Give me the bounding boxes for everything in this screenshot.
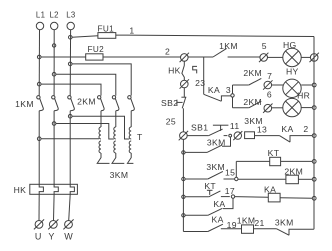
svg-text:2KM: 2KM <box>243 68 262 78</box>
svg-text:1KM: 1KM <box>237 216 256 226</box>
transformer T coil C <box>129 127 131 139</box>
svg-text:13: 13 <box>257 124 267 134</box>
contactor 3KM main contacts <box>97 153 109 163</box>
wire node3 down to row3 <box>232 97 234 108</box>
node rail junction row7 <box>312 196 316 200</box>
svg-text:2KM: 2KM <box>77 97 96 107</box>
svg-text:FU2: FU2 <box>88 45 105 54</box>
node U terminal <box>35 221 43 229</box>
wire vertical branch x204 <box>203 57 205 94</box>
node junction L1-2KM branch <box>37 82 41 86</box>
svg-text:3KM: 3KM <box>206 162 225 172</box>
wire left rail <box>182 139 184 231</box>
node junction L1 tap <box>37 137 41 141</box>
svg-text:KT: KT <box>204 181 216 191</box>
wire 2KM pole C lower <box>130 111 132 127</box>
svg-text:U: U <box>35 231 42 241</box>
wire junction at 1KM contact top <box>188 56 213 58</box>
thermal relay HK heater 3 <box>70 184 74 194</box>
svg-text:HY: HY <box>286 66 299 76</box>
wire branch L2 to 2KM pole B <box>56 74 116 95</box>
wire branch L3 to 2KM pole C <box>72 64 131 96</box>
svg-text:19: 19 <box>227 220 237 230</box>
node rail junction KT row <box>312 160 316 164</box>
node junction selfhold <box>182 151 185 154</box>
node junction row7 <box>182 195 185 198</box>
wire L1 vertical <box>38 30 40 96</box>
node junction L2 tap <box>52 122 56 126</box>
node junction L3-2KM branch <box>68 62 72 66</box>
wire SB2 to SB1 terminal <box>182 108 184 132</box>
wire tap coil A <box>41 138 99 140</box>
contactor 1KM pole 2 <box>52 96 55 99</box>
node rail junction row4 <box>312 134 316 138</box>
svg-text:3KM: 3KM <box>275 218 294 228</box>
node terminal wire2/HK <box>181 54 189 62</box>
node junction L2-2KM branch <box>52 72 56 76</box>
svg-text:HK: HK <box>14 185 27 195</box>
wire tap coil C <box>72 116 129 139</box>
svg-text:T: T <box>137 132 143 142</box>
contactor 1KM pole 3 <box>68 96 71 99</box>
svg-text:HR: HR <box>297 90 310 100</box>
svg-text:L2: L2 <box>50 11 59 20</box>
wire to FU2 <box>41 56 86 58</box>
wire 2KM coil to rail <box>298 178 312 180</box>
node W terminal <box>65 221 73 229</box>
transformer T coil B <box>114 127 116 139</box>
contactor 1KM pole 1 <box>37 96 40 99</box>
svg-text:Y: Y <box>48 231 54 241</box>
svg-text:15: 15 <box>225 168 235 178</box>
wire to motor terminals <box>38 194 40 220</box>
svg-text:KA: KA <box>208 85 220 95</box>
svg-text:KA: KA <box>213 199 225 209</box>
node 3 junction <box>231 94 234 97</box>
svg-text:SB2: SB2 <box>161 98 178 108</box>
wire HR to rail <box>301 107 312 109</box>
svg-text:2: 2 <box>303 124 308 134</box>
thermal relay HK heater 1 <box>39 184 43 194</box>
svg-text:SB1: SB1 <box>191 123 208 133</box>
node terminal 25/SB1 <box>180 132 188 140</box>
svg-text:1KM: 1KM <box>15 99 34 109</box>
wire to HR lamp <box>271 107 283 109</box>
svg-text:2: 2 <box>165 47 170 57</box>
wire L3 vertical <box>69 30 71 96</box>
svg-text:HK: HK <box>168 66 181 76</box>
svg-text:W: W <box>64 231 73 241</box>
wire to HY lamp <box>271 84 283 86</box>
node junction L3-FU1 <box>69 36 73 40</box>
contactor 2KM pole C <box>128 96 131 99</box>
svg-text:3KM: 3KM <box>110 170 129 180</box>
wire 2KM pole A lower <box>100 111 102 127</box>
wire L2 lower <box>53 111 55 185</box>
node Y terminal <box>49 221 57 229</box>
node junction row6 <box>182 177 185 180</box>
svg-text:1: 1 <box>129 25 134 35</box>
transformer T coil A <box>99 127 101 139</box>
wire right rail <box>313 37 315 230</box>
wire to HG lamp <box>267 56 283 58</box>
wire KT branch vertical <box>235 161 237 177</box>
svg-text:3: 3 <box>226 85 231 95</box>
wire KT coil to rail <box>281 160 313 162</box>
svg-text:11: 11 <box>230 121 240 131</box>
wire to FU1 <box>72 36 98 38</box>
svg-text:21: 21 <box>254 218 264 228</box>
svg-text:6: 6 <box>267 90 272 100</box>
thermal relay HK box <box>30 184 78 194</box>
contactor 2KM pole B <box>112 96 115 99</box>
wire tap coil B <box>56 124 114 140</box>
svg-text:25: 25 <box>166 117 176 127</box>
node rail junction row6 <box>312 177 316 181</box>
wire L2 vertical <box>53 30 55 96</box>
wire KA coil to rail <box>280 197 312 200</box>
node rail junction row3 <box>312 106 316 110</box>
wire L1 lower <box>38 111 40 185</box>
svg-text:L3: L3 <box>66 11 75 20</box>
svg-text:7: 7 <box>267 71 272 81</box>
wire node17 to KA coil <box>235 196 269 199</box>
node junction L2 small <box>52 44 55 47</box>
wire HG to rail <box>301 56 311 58</box>
wire branch L1 to 2KM pole A <box>41 84 101 96</box>
svg-text:KA: KA <box>212 214 224 224</box>
svg-text:L1: L1 <box>36 11 45 20</box>
node junction L3 tap <box>68 114 72 118</box>
wire HY to rail <box>301 84 312 86</box>
svg-text:5: 5 <box>262 41 267 51</box>
node junction KA selfhold <box>182 214 185 217</box>
wire KT branch horizontal <box>236 160 269 162</box>
thermal relay HK heater 2 <box>54 184 58 194</box>
wire node3 up to row2 <box>232 85 234 94</box>
node rail junction row2 <box>312 83 316 87</box>
wire node15 to 2KM coil <box>238 178 286 180</box>
node terminal 23 <box>181 80 189 88</box>
wire L3 lower <box>69 111 71 185</box>
node rail terminal <box>310 54 318 62</box>
node junction L1-FU2 <box>37 55 41 59</box>
contactor 2KM pole A <box>98 96 101 99</box>
svg-text:1KM: 1KM <box>219 41 238 51</box>
svg-text:KA: KA <box>281 124 293 134</box>
node junction 11 <box>229 134 232 137</box>
svg-text:FU1: FU1 <box>98 24 115 33</box>
wire 2KM pole B lower <box>115 111 117 127</box>
svg-text:KT: KT <box>268 148 280 158</box>
